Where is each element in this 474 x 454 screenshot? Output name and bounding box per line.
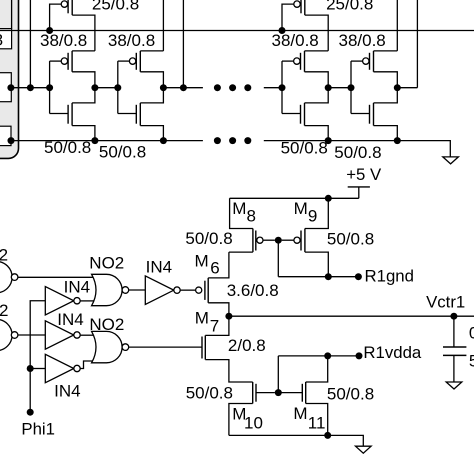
R1vdda terminal bbox=[356, 352, 363, 359]
wire stage2 out rightward bbox=[163, 87, 203, 89]
transistor M11 drain stub bbox=[306, 356, 328, 382]
svg-text:M: M bbox=[195, 252, 209, 271]
svg-text:0.1: 0.1 bbox=[469, 324, 474, 343]
svg-text:50/0.8: 50/0.8 bbox=[327, 385, 374, 404]
stage 2 PMOS channel bar bbox=[139, 51, 141, 72]
stage 4 output node bbox=[394, 84, 401, 91]
junction feedback/input bbox=[27, 84, 34, 91]
ground symbol bias bbox=[356, 446, 372, 453]
pin box A (input pin) bbox=[0, 73, 11, 102]
transistor M7 source stub bbox=[205, 360, 252, 382]
ground symbol oscillator bbox=[443, 157, 459, 164]
svg-text:50/0.8: 50/0.8 bbox=[44, 138, 91, 157]
svg-text:M: M bbox=[293, 404, 307, 423]
stage 1 input node bbox=[46, 84, 53, 91]
feedback riser bbox=[416, 0, 418, 88]
svg-text:38/0.8: 38/0.8 bbox=[339, 31, 386, 50]
stage 3 PMOS gate bar bbox=[300, 53, 302, 70]
label 50/0.8 M10 bbox=[186, 383, 233, 402]
wire: feedback drop at left bbox=[29, 0, 31, 88]
wire R1vdda bbox=[278, 355, 359, 357]
NOR gate NO2 1 bbox=[92, 274, 123, 305]
wire IN4-3 out to NOR2 lower input bbox=[80, 361, 93, 369]
stage 1 PMOS channel bar bbox=[71, 51, 73, 72]
stage 2 input node bbox=[114, 84, 121, 91]
bias rail (horizontal, full width) bbox=[0, 30, 474, 32]
transistor MP bias 2 (25/0.8) gate wire bbox=[282, 4, 294, 30]
label Phi1 bbox=[21, 419, 55, 438]
transistor MP bias 2 channel bar bbox=[304, 0, 306, 15]
stage 1 NMOS (50/0.8) gate wire bbox=[50, 113, 69, 115]
Vctr1 tap junction bbox=[450, 313, 457, 320]
transistor MP bias 1 gate bar bbox=[67, 0, 69, 13]
label M10 bbox=[232, 405, 263, 433]
NOR b bubble bbox=[11, 332, 18, 339]
transistor MP bias 2 drain stub bbox=[305, 15, 328, 51]
svg-text:9: 9 bbox=[308, 207, 317, 226]
label 50/0.8 osc at 334.3 bbox=[334, 143, 381, 162]
stage 1 source rail node bbox=[91, 137, 98, 144]
svg-text:8: 8 bbox=[247, 207, 256, 226]
wire IN4-3 input bbox=[30, 368, 45, 370]
NOR a bubble bbox=[11, 274, 18, 281]
label 25/0.8 #1 bbox=[92, 0, 139, 13]
oscillator ground rail left bbox=[10, 140, 203, 142]
transistor M11 gate wire bbox=[278, 392, 302, 394]
transistor MP bias 1 channel bar bbox=[71, 0, 73, 15]
stage 2 NMOS drain stub bbox=[140, 88, 163, 103]
svg-text:10: 10 bbox=[244, 414, 263, 433]
label 2/0.8 bbox=[228, 336, 266, 355]
transistor M6 channel bar bbox=[207, 278, 209, 303]
wire ellipsis to stage3 in bbox=[264, 87, 282, 89]
stage 3 NMOS drain stub bbox=[305, 88, 329, 103]
transistor MP bias 1 drain stub bbox=[72, 15, 95, 51]
ellipsis ground rail bbox=[214, 137, 251, 144]
label NO2 b bbox=[0, 301, 8, 320]
transistor M8 gate bar bbox=[255, 231, 257, 251]
stage 2 PMOS gate bar bbox=[135, 53, 137, 70]
stage 1 PMOS bubble bbox=[61, 58, 67, 64]
label 50/0.8 M11 bbox=[327, 385, 374, 404]
svg-text:2/0.8: 2/0.8 bbox=[228, 336, 266, 355]
wire IN4-1 out to NOR1 bbox=[80, 300, 95, 302]
stage 4 input node bbox=[348, 84, 355, 91]
stage 4 NMOS (50/0.8) gate wire bbox=[351, 113, 370, 115]
wire: input net from pin box bbox=[10, 87, 50, 89]
svg-text:50/0.8: 50/0.8 bbox=[281, 139, 328, 158]
label 25/0.8 #2 bbox=[326, 0, 373, 13]
label 38/0.8 at 40.0 bbox=[40, 31, 87, 50]
svg-text:50/0.8: 50/0.8 bbox=[185, 229, 232, 248]
svg-text:50/0.8: 50/0.8 bbox=[327, 229, 374, 248]
svg-text:38/0.8: 38/0.8 bbox=[272, 31, 319, 50]
transistor M9 gate bar bbox=[300, 231, 302, 251]
svg-text:11: 11 bbox=[308, 414, 326, 433]
label capacitor value line1 (cut) bbox=[469, 324, 474, 343]
svg-text:M: M bbox=[294, 199, 308, 218]
stage 4 NMOS channel bar bbox=[373, 103, 375, 126]
inverter IN4-4 bbox=[145, 276, 174, 305]
label M8 bbox=[232, 199, 256, 226]
mirror gate tie-down wire bbox=[277, 240, 279, 277]
stage 4 input wire bbox=[350, 61, 352, 113]
gray block (cut off at left edge) bbox=[0, 0, 19, 158]
svg-text:25/0.8: 25/0.8 bbox=[92, 0, 139, 13]
svg-text:R1gnd: R1gnd bbox=[365, 267, 414, 286]
transistor MP bias 1 (25/0.8) gate wire bbox=[50, 4, 62, 30]
label M9 bbox=[294, 199, 318, 225]
inverter IN4-1 bbox=[45, 287, 74, 316]
stage 3 output node bbox=[325, 84, 332, 91]
stage 4 PMOS (38/0.8) gate wire bbox=[351, 60, 363, 62]
NOR gate NO2 b (cut at edge) bbox=[0, 319, 12, 350]
stage 2 NMOS gate bar bbox=[135, 105, 137, 124]
svg-text:38/0.8: 38/0.8 bbox=[40, 31, 87, 50]
stage 2 source rail node bbox=[160, 137, 167, 144]
inverter IN4-3 bbox=[45, 354, 74, 383]
stage 4 PMOS gate bar bbox=[369, 53, 371, 70]
svg-text:Vctr1: Vctr1 bbox=[426, 293, 465, 312]
transistor M10 gate bar bbox=[255, 384, 257, 402]
transistor MP bias 2 gate bar bbox=[300, 0, 302, 13]
label 50/0.8 M8 bbox=[185, 229, 232, 248]
transistor M9 bubble bbox=[294, 237, 300, 243]
IN4-1 bubble bbox=[74, 298, 80, 304]
label M11 bbox=[293, 404, 325, 433]
stage 1 NMOS source stub bbox=[72, 126, 95, 141]
stage 2 PMOS (38/0.8) gate wire bbox=[118, 60, 130, 62]
svg-text:38/0.8: 38/0.8 bbox=[108, 31, 155, 50]
ellipsis node rail bbox=[214, 84, 251, 91]
junction bias rail 1 bbox=[46, 27, 53, 34]
svg-text:50/0.8: 50/0.8 bbox=[99, 143, 146, 162]
capacitor C1 bottom wire bbox=[453, 355, 455, 382]
label NO2 a bbox=[0, 245, 8, 264]
stage 3 source rail node bbox=[325, 137, 332, 144]
stage 4 source rail node bbox=[394, 137, 401, 144]
pin box 8 bbox=[0, 29, 12, 50]
transistor M9 drain stub bbox=[305, 252, 328, 277]
svg-text:+5 V: +5 V bbox=[346, 165, 382, 184]
junction on pin box A bbox=[7, 84, 14, 91]
pin box 8 wire bbox=[11, 0, 13, 29]
+5V supply symbol bbox=[348, 187, 370, 198]
svg-text:M: M bbox=[195, 309, 209, 328]
stage 1 NMOS gate bar bbox=[67, 105, 69, 124]
stage 1 NMOS drain stub bbox=[72, 88, 95, 103]
wire NOR b out to IN4-2 input bbox=[18, 334, 45, 336]
Phi1 branch junction bbox=[27, 365, 34, 372]
Phi1 terminal bbox=[27, 409, 34, 416]
svg-text:Phi1: Phi1 bbox=[21, 419, 55, 438]
node Vctr1 junction M6-M7 bbox=[225, 313, 232, 320]
transistor M11 gate bar bbox=[301, 384, 303, 402]
stage 1 PMOS gate bar bbox=[67, 53, 69, 70]
svg-text:IN4: IN4 bbox=[57, 310, 83, 329]
stage 3 NMOS source stub bbox=[305, 126, 329, 141]
junction bias rail 2 bbox=[279, 27, 286, 34]
label M6 bbox=[195, 252, 220, 278]
stage 1 PMOS (38/0.8) gate wire bbox=[50, 60, 62, 62]
stage 4 source feed from top bbox=[396, 0, 398, 51]
stage 2 NMOS source stub bbox=[140, 126, 163, 141]
svg-text:IN4: IN4 bbox=[146, 258, 172, 277]
IN4-3 bubble bbox=[74, 365, 80, 371]
stage 2 NMOS (50/0.8) gate wire bbox=[118, 113, 137, 115]
stage 3 NMOS channel bar bbox=[304, 103, 306, 126]
label 38/0.8 at 271.5 bbox=[272, 31, 319, 50]
stage 2 PMOS drain stub bbox=[140, 50, 163, 52]
svg-text:NO2: NO2 bbox=[89, 254, 124, 273]
transistor M6 drain stub bbox=[208, 303, 229, 316]
junction gnd pin bbox=[8, 137, 15, 144]
svg-text:NO2: NO2 bbox=[0, 245, 8, 264]
NOR1 bubble bbox=[122, 287, 129, 294]
transistor M8 channel bar bbox=[252, 229, 254, 253]
label R1vdda bbox=[363, 343, 422, 362]
wire stage3 out to stage4 in bbox=[328, 87, 351, 89]
svg-text:IN4: IN4 bbox=[54, 382, 80, 401]
wire IN4-4 out to M6 gate bbox=[180, 289, 195, 291]
stage 2 source feed from top bbox=[162, 0, 164, 51]
wire IN4-2 out to NOR2 bbox=[80, 334, 95, 336]
svg-text:R1vdda: R1vdda bbox=[363, 343, 422, 362]
stage 4 PMOS drain stub bbox=[374, 50, 398, 52]
wire Vctr1 bbox=[229, 315, 474, 317]
transistor M10 gate wire bbox=[256, 392, 275, 394]
stage 2 NMOS channel bar bbox=[139, 103, 141, 126]
wire R1gnd bbox=[278, 276, 358, 278]
stage 4 NMOS source stub bbox=[374, 126, 398, 141]
stage 3 PMOS drain stub bbox=[305, 50, 329, 52]
label capacitor value line2 (cut) bbox=[469, 351, 474, 370]
svg-text:6: 6 bbox=[210, 259, 219, 278]
label 38/0.8 at 107.9 bbox=[108, 31, 155, 50]
R1gnd terminal bbox=[355, 273, 362, 280]
stage 4 PMOS source stub bbox=[374, 72, 398, 88]
Phi1 riser wire bbox=[30, 301, 45, 412]
transistor M11 source stub bbox=[306, 404, 328, 436]
pin box B (gnd pin) bbox=[0, 126, 11, 145]
label 38/0.8 at 338.5 bbox=[339, 31, 386, 50]
transistor M6 source stub bbox=[208, 252, 229, 278]
label NO2 1 bbox=[89, 254, 124, 273]
IN4-4 bubble bbox=[174, 287, 180, 293]
stage 1 NMOS channel bar bbox=[71, 103, 73, 126]
bias ground rail bbox=[229, 435, 363, 446]
inverter IN4-2 bbox=[45, 321, 74, 350]
wire NOR2 out to M7 gate bbox=[129, 346, 202, 348]
stage 2 PMOS source stub bbox=[140, 72, 163, 88]
svg-text:8: 8 bbox=[0, 30, 3, 49]
stage 3 input wire bbox=[281, 61, 283, 113]
NOR gate NO2 a (cut at edge) bbox=[0, 261, 12, 292]
transistor M9 channel bar bbox=[304, 229, 306, 253]
stage 3 NMOS (50/0.8) gate wire bbox=[282, 113, 301, 115]
label R1gnd bbox=[365, 267, 414, 286]
stage 3 PMOS channel bar bbox=[304, 51, 306, 72]
svg-text:NO2: NO2 bbox=[89, 315, 124, 334]
NOR2 bubble bbox=[122, 344, 129, 351]
transistor M6 gate bar bbox=[204, 281, 206, 300]
transistor M6 bubble bbox=[196, 287, 202, 293]
transistor M11 channel bar bbox=[305, 382, 307, 404]
transistor MP bias 2 bubble bbox=[294, 1, 300, 7]
stage 4 NMOS drain stub bbox=[374, 88, 398, 103]
transistor M7 channel bar bbox=[204, 335, 206, 359]
svg-text:NO2: NO2 bbox=[0, 301, 8, 320]
svg-text:25/0.8: 25/0.8 bbox=[326, 0, 373, 13]
transistor M9 gate wire bbox=[282, 239, 294, 241]
stage 2 input wire bbox=[117, 61, 119, 113]
transistor M7 gate bar bbox=[201, 337, 203, 359]
IN4-2 bubble bbox=[74, 332, 80, 338]
label M7 bbox=[195, 309, 220, 336]
stage 3 input node bbox=[279, 84, 286, 91]
wire NOR1 out to IN4-4 bbox=[129, 289, 146, 291]
NOR gate NO2 2 bbox=[92, 331, 123, 362]
svg-text:7: 7 bbox=[210, 316, 219, 335]
junction riser bbox=[180, 84, 187, 91]
label IN4-4 bbox=[146, 258, 172, 277]
ground symbol capacitor bbox=[446, 382, 462, 389]
transistor M9 source stub bbox=[305, 198, 328, 228]
wire stage4 out to feedback bbox=[397, 87, 417, 89]
svg-text:5p: 5p bbox=[469, 351, 474, 370]
mirror2 tie riser bbox=[277, 356, 279, 393]
stage 2 PMOS bubble bbox=[129, 58, 135, 64]
svg-text:50/0.8: 50/0.8 bbox=[334, 143, 381, 162]
label 3.6/0.8 bbox=[227, 281, 279, 300]
stage 3 PMOS source stub bbox=[305, 72, 329, 88]
stage 1 output node bbox=[91, 84, 98, 91]
stage 2 output node bbox=[160, 84, 167, 91]
svg-text:M: M bbox=[232, 199, 246, 218]
label 50/0.8 M9 bbox=[327, 229, 374, 248]
stage 3 PMOS (38/0.8) gate wire bbox=[282, 60, 294, 62]
transistor M8 bubble bbox=[257, 237, 263, 243]
transistor M10 channel bar bbox=[252, 382, 254, 404]
wire stage1 out to stage2 in bbox=[95, 87, 118, 89]
junction M9 source on +5V rail bbox=[325, 195, 332, 202]
node riser to top edge bbox=[182, 0, 184, 88]
stage 1 PMOS drain stub bbox=[72, 50, 95, 52]
transistor M8 drain stub bbox=[229, 251, 253, 253]
label IN4-3 bbox=[54, 382, 80, 401]
stage 3 NMOS gate bar bbox=[300, 105, 302, 124]
stage 1 PMOS source stub bbox=[72, 72, 95, 88]
oscillator ground rail right bbox=[264, 141, 451, 157]
transistor M7 drain stub bbox=[205, 316, 229, 335]
label 50/0.8 osc at 280.6 bbox=[281, 139, 328, 158]
stage 4 PMOS bubble bbox=[363, 58, 369, 64]
junction M9 drain on R1gnd bbox=[325, 273, 332, 280]
mirror gate junction bbox=[275, 237, 282, 244]
transistor M10 source stub bbox=[229, 404, 253, 436]
transistor MP bias 1 bubble bbox=[61, 1, 67, 7]
label +5 V bbox=[346, 165, 382, 184]
stage 1 input wire bbox=[49, 61, 51, 113]
label 50/0.8 osc at 44.0 bbox=[44, 138, 91, 157]
svg-text:3.6/0.8: 3.6/0.8 bbox=[227, 281, 279, 300]
label IN4-1 bbox=[64, 278, 90, 297]
+5V rail bbox=[230, 197, 359, 199]
label IN4-2 bbox=[57, 310, 83, 329]
capacitor C1 top wire bbox=[453, 316, 455, 347]
transistor M8 source stub bbox=[230, 198, 253, 228]
stage 4 PMOS channel bar bbox=[373, 51, 375, 72]
label Vctr1 bbox=[426, 293, 465, 312]
label NO2 2 bbox=[89, 315, 124, 334]
transistor M8 gate wire bbox=[263, 239, 275, 241]
mirror2 gate junction bbox=[275, 389, 282, 396]
wire NOR a out to NOR1 input bbox=[18, 276, 95, 278]
stage 3 PMOS bubble bbox=[294, 58, 300, 64]
svg-text:50/0.8: 50/0.8 bbox=[186, 383, 233, 402]
svg-text:IN4: IN4 bbox=[64, 278, 90, 297]
junction M11 source bbox=[324, 432, 331, 439]
stage 4 NMOS gate bar bbox=[369, 105, 371, 124]
capacitor C1 plates bbox=[443, 347, 466, 355]
junction M11 drain on R1vdda bbox=[324, 352, 331, 359]
label 50/0.8 osc at 98.9 bbox=[99, 143, 146, 162]
